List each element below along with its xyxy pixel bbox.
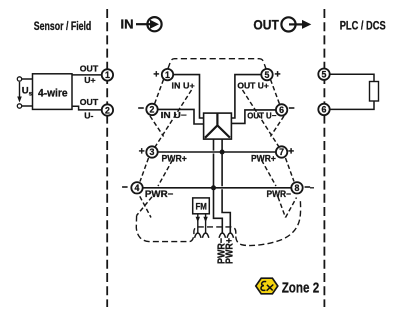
device terminal circle 4	[131, 182, 142, 193]
dashed housing bottom left curve	[136, 216, 236, 242]
field terminal circle 2	[102, 104, 113, 115]
field terminal circle 1	[102, 69, 113, 80]
device terminal circle 2	[146, 104, 157, 115]
Ex hexagon logo	[256, 278, 278, 294]
device housing dashed outline top	[168, 59, 266, 69]
svg-text:−: −	[122, 181, 128, 193]
wire device terminal 5 to isolator	[231, 75, 261, 118]
svg-text:2: 2	[150, 105, 155, 115]
svg-text:+: +	[288, 146, 294, 158]
svg-text:U-: U-	[84, 110, 93, 120]
dashed V below terminal 8 right stroke	[286, 198, 297, 218]
PWR- rail wire terminal 4 to 8	[143, 187, 291, 189]
dashed link terminal 3 to 4	[140, 158, 149, 182]
load resistor	[370, 82, 379, 102]
dashed stub below terminal 2	[150, 116, 164, 137]
svg-text:OUT: OUT	[253, 17, 279, 32]
plug contact PWR+	[227, 233, 233, 238]
dashed stub right of terminal 8	[310, 187, 314, 189]
svg-text:+: +	[275, 68, 281, 80]
svg-text:8: 8	[295, 183, 300, 193]
dashed stub below terminal 4	[140, 196, 151, 217]
plug contact under FM left	[195, 233, 201, 238]
wire device terminal 2 to isolator	[158, 109, 204, 124]
FM arrow wire right	[203, 214, 207, 233]
svg-text:1: 1	[105, 70, 110, 80]
FM function module box	[193, 198, 210, 214]
svg-text:PWR−: PWR−	[267, 189, 292, 199]
svg-text:OUT: OUT	[80, 64, 99, 74]
svg-text:Zone 2: Zone 2	[282, 280, 320, 297]
svg-text:OUT: OUT	[80, 97, 99, 107]
wire 4-wire box to field terminal 1	[72, 74, 102, 76]
svg-text:Sensor / Field: Sensor / Field	[34, 19, 92, 33]
svg-text:+: +	[139, 146, 145, 158]
svg-text:IN: IN	[121, 16, 134, 31]
dashed link terminal 1 to 2	[155, 80, 164, 105]
FM arrow wire left	[196, 214, 200, 233]
device terminal circle 1	[162, 69, 173, 80]
svg-text:U+: U+	[84, 75, 95, 85]
device terminal circle 7	[276, 146, 287, 157]
IN arrow icon	[136, 17, 162, 31]
wire load resistor to PLC 6	[330, 101, 374, 109]
svg-text:PLC / DCS: PLC / DCS	[340, 19, 386, 33]
svg-text:2: 2	[105, 105, 110, 115]
svg-text:FM: FM	[195, 201, 207, 212]
junction dot PWR- rail	[211, 185, 216, 190]
device terminal circle 8	[291, 182, 302, 193]
wire device terminal 1 to isolator	[173, 75, 203, 118]
svg-text:−: −	[304, 181, 310, 193]
wire PLC 5 to load resistor	[330, 74, 374, 81]
device terminal circle 6	[276, 104, 287, 115]
svg-text:IN U+: IN U+	[172, 80, 195, 90]
svg-text:7: 7	[279, 147, 284, 157]
svg-text:PWR+: PWR+	[162, 154, 187, 164]
wire device terminal 6 to isolator	[231, 110, 275, 124]
dashed link label row to terminal 4 area	[158, 160, 173, 186]
wire source bottom to 4-wire box	[22, 105, 33, 107]
wire 4-wire box to field terminal 2	[72, 106, 102, 110]
svg-text:IN U−: IN U−	[161, 110, 187, 120]
plug contact PWR-	[219, 233, 225, 238]
dashed link label row to terminal 8 area	[262, 160, 277, 186]
dashed link corner to terminal 3	[155, 90, 192, 147]
svg-text:PWR−: PWR−	[145, 189, 173, 199]
dashed housing bottom right arc to terminal 8	[236, 199, 301, 246]
device terminal circle 3	[146, 146, 157, 157]
wire source top to 4-wire box	[22, 78, 33, 80]
svg-text:5: 5	[265, 70, 270, 80]
voltage source Us terminal top	[17, 77, 21, 81]
PWR+ feed vertical wire from isolator	[222, 139, 230, 233]
PWR- feed vertical wire from isolator	[214, 139, 223, 233]
PLC terminal circle 6	[318, 104, 329, 115]
Us polarity arrow	[17, 82, 22, 103]
junction dot PWR+ rail	[220, 150, 225, 155]
dashed stub below terminal 6	[270, 116, 284, 137]
device terminal circle 5	[261, 69, 272, 80]
dashed link terminal 5 to 6	[271, 80, 280, 105]
svg-text:PWR+: PWR+	[251, 154, 276, 164]
svg-text:+: +	[153, 68, 159, 80]
svg-text:PWR+: PWR+	[224, 238, 235, 264]
dashed link corner to terminal 7	[243, 90, 280, 147]
svg-text:3: 3	[150, 147, 155, 157]
dashed cross stroke below terminal 4	[137, 197, 152, 216]
PWR+ rail wire terminal 3 to 7	[158, 151, 276, 153]
svg-text:6: 6	[322, 105, 327, 115]
dashed link terminal 7 to 8	[286, 158, 295, 182]
dashed V below terminal 8 left stroke	[278, 197, 286, 218]
voltage source Us terminal bottom	[17, 104, 21, 108]
svg-text:OUT U−: OUT U−	[247, 110, 276, 120]
svg-text:5: 5	[322, 69, 327, 79]
svg-text:−: −	[138, 102, 144, 114]
svg-text:4: 4	[135, 183, 140, 193]
svg-text:6: 6	[279, 105, 284, 115]
plug contact under FM right	[202, 233, 208, 238]
transmitter 4-wire box	[33, 74, 73, 110]
svg-text:OUT U+: OUT U+	[237, 81, 269, 91]
svg-text:4-wire: 4-wire	[38, 87, 68, 99]
svg-text:−: −	[289, 102, 295, 114]
PLC boundary dashed line	[323, 9, 325, 307]
PLC terminal circle 5	[318, 69, 329, 80]
field boundary dashed line	[106, 9, 108, 307]
OUT arrow icon	[281, 17, 311, 31]
isolation amplifier box	[204, 113, 232, 139]
svg-text:1: 1	[165, 70, 170, 80]
